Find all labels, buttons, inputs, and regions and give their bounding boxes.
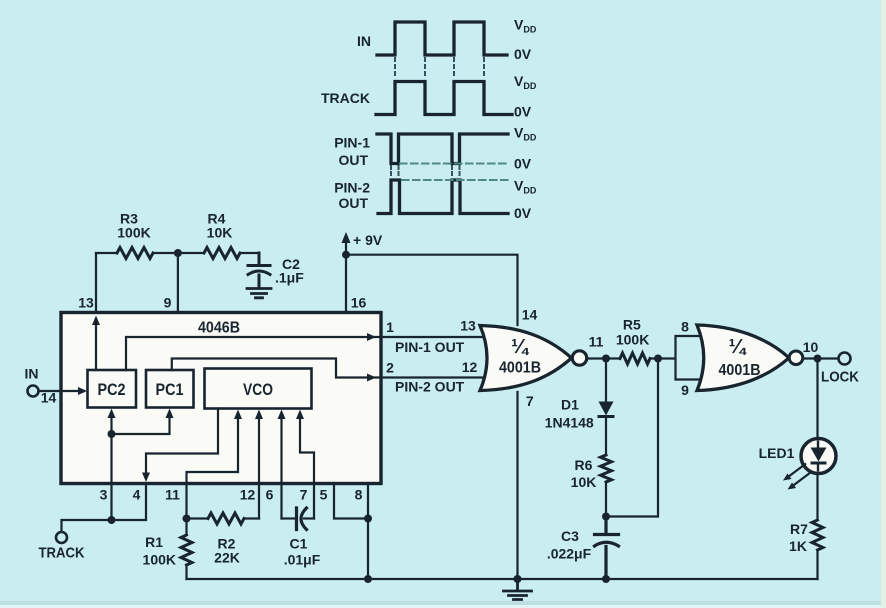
dashed VDD line of PIN-2 OUT: [402, 179, 510, 181]
svg-text:100K: 100K: [616, 332, 649, 348]
svg-text:13: 13: [78, 295, 94, 311]
node pin8 rail: [364, 575, 372, 583]
wire pin12 to VCO: [258, 417, 260, 519]
svg-text:PIN-2: PIN-2: [334, 180, 370, 196]
node TRACK: [108, 516, 116, 524]
arrow pin1 right: [367, 333, 376, 341]
svg-text:13: 13: [460, 318, 476, 334]
svg-text:PC2: PC2: [98, 381, 126, 399]
dashed edge alignment lines IN to TRACK: [395, 58, 484, 79]
U2 output bubble: [789, 351, 803, 365]
svg-text:22K: 22K: [214, 550, 240, 566]
node R3/R4/pin9: [174, 249, 182, 257]
resistor R2: [208, 513, 244, 524]
svg-text:+ 9V: + 9V: [353, 232, 383, 248]
svg-text:R7: R7: [790, 521, 808, 537]
svg-text:D1: D1: [561, 397, 579, 413]
svg-text:R1: R1: [145, 534, 163, 550]
wire R1 bottom: [185, 565, 187, 579]
arrow up into VCO a: [234, 410, 242, 420]
terminal LOCK: [839, 353, 851, 365]
svg-text:14: 14: [522, 307, 538, 323]
dashed 0V line of PIN-1 OUT: [400, 162, 510, 164]
svg-text:11: 11: [165, 487, 180, 503]
wire pin13 internal: [95, 322, 97, 370]
node R6 C3: [602, 513, 610, 521]
svg-text:12: 12: [462, 359, 478, 375]
PC2 box: [88, 370, 137, 408]
ground rail bottom: [187, 578, 818, 580]
svg-text:8: 8: [681, 319, 689, 335]
wire R5 to U2 inputs bracket: [650, 336, 705, 380]
resistor R7: [812, 520, 823, 550]
svg-text:5: 5: [320, 487, 328, 503]
resistor R1: [181, 535, 192, 565]
node R5 right: [654, 355, 662, 363]
arrowheads: [78, 232, 376, 482]
waveform PIN-2 OUT trace: [378, 180, 508, 214]
svg-text:7: 7: [526, 393, 534, 409]
svg-text:PC1: PC1: [156, 381, 184, 399]
arrow down to pin4: [142, 473, 150, 483]
arrow up into PC2 bottom: [108, 409, 116, 419]
svg-text:R5: R5: [623, 317, 641, 333]
wire R2 left: [187, 517, 209, 519]
arrow pin13 up: [92, 316, 100, 326]
svg-text:4: 4: [133, 487, 141, 503]
terminal TRACK: [56, 532, 67, 543]
wire R3-R4 top filter: [96, 252, 259, 254]
arrow up into PC1 bottom: [166, 409, 174, 419]
wire PC2 PC1 bottom junction: [112, 417, 170, 520]
svg-text:100K: 100K: [117, 225, 150, 241]
svg-text:IN: IN: [25, 366, 39, 382]
svg-text:¼: ¼: [729, 336, 748, 358]
arrow up into VCO c: [278, 410, 286, 420]
svg-text:PIN-2 OUT: PIN-2 OUT: [395, 379, 465, 395]
op-amp style NOR gate U1 1/4 4001B: [480, 326, 572, 391]
svg-text:14: 14: [41, 390, 57, 406]
PC1 box: [146, 370, 194, 408]
resistor R4: [204, 248, 240, 259]
svg-text:12: 12: [240, 487, 256, 503]
svg-text:0V: 0V: [514, 104, 532, 120]
arrow into PC2 from IN: [78, 387, 87, 395]
wire pin8 down: [367, 484, 369, 580]
node U2 out: [814, 355, 822, 363]
svg-text:LOCK: LOCK: [821, 369, 859, 386]
node +9V: [342, 251, 350, 259]
wire C3 node feedback to R5 node: [606, 359, 658, 517]
svg-text:10K: 10K: [571, 474, 597, 490]
svg-text:7: 7: [300, 487, 308, 503]
svg-text:.1μF: .1μF: [275, 270, 304, 286]
svg-text:OUT: OUT: [338, 195, 368, 211]
diode D1: [598, 402, 615, 417]
svg-text:9: 9: [164, 295, 172, 311]
capacitor C3: [595, 517, 619, 580]
svg-text:10: 10: [803, 339, 819, 355]
resistor R6: [601, 455, 612, 482]
svg-text:16: 16: [351, 295, 367, 311]
waveform IN trace: [377, 22, 507, 55]
node R1 R2 pin11: [183, 515, 191, 523]
wire R2 right to pin12: [244, 517, 259, 519]
+9V rail to gate U1 pin14: [346, 255, 518, 325]
U1 output bubble: [572, 351, 586, 365]
wire pin1 PC2 to gate input: [126, 337, 492, 370]
svg-text:1K: 1K: [789, 538, 807, 554]
terminal IN: [28, 386, 39, 397]
wire LOCK node down to LED1: [816, 359, 818, 439]
svg-text:IN: IN: [357, 33, 371, 49]
svg-text:OUT: OUT: [338, 152, 368, 168]
node C3 rail: [602, 575, 610, 583]
ground below C2: [247, 289, 271, 298]
svg-text:11: 11: [589, 334, 604, 350]
svg-text:8: 8: [355, 487, 363, 503]
capacitor C1: [297, 508, 307, 530]
wire pin7 to VCO: [300, 417, 314, 519]
LED1: [783, 439, 836, 490]
svg-text:9: 9: [681, 382, 689, 398]
node PC2 bottom: [108, 430, 116, 438]
VCO box: [205, 369, 312, 409]
wire R6 bottom to C3 node: [605, 482, 607, 517]
wire pin13 to filter: [95, 253, 97, 313]
arrow up into VCO d: [296, 410, 304, 420]
wire IN terminal to PC2: [39, 390, 84, 392]
svg-text:C3: C3: [561, 528, 579, 544]
svg-text:TRACK: TRACK: [321, 90, 370, 106]
wire R7 bottom to rail: [816, 550, 818, 579]
wire C1 left: [282, 517, 295, 519]
wire pin11 R1 top: [185, 484, 187, 536]
svg-text:100K: 100K: [143, 552, 176, 568]
NOR gate U2 1/4 4001B: [697, 325, 789, 391]
svg-text:3: 3: [100, 487, 108, 503]
wire U2 output to LOCK: [803, 357, 839, 359]
wire C1 right to pin7: [304, 517, 314, 519]
svg-text:2: 2: [386, 360, 394, 376]
svg-text:4001B: 4001B: [719, 362, 761, 379]
svg-text:1N4148: 1N4148: [545, 415, 594, 431]
wire U1 pin7 to ground rail: [516, 392, 518, 579]
svg-text:.01μF: .01μF: [284, 552, 321, 568]
arrow pin2 right: [367, 374, 376, 382]
svg-text:0V: 0V: [514, 46, 532, 62]
svg-text:R6: R6: [575, 457, 593, 473]
wire VCO out to pin4: [146, 409, 218, 475]
wire pin5 jog: [334, 484, 368, 519]
svg-text:10K: 10K: [207, 225, 233, 241]
node ground rail U1 pin7: [514, 575, 522, 583]
svg-text:PIN-1: PIN-1: [334, 135, 370, 151]
wire D1 to R6: [605, 418, 607, 456]
wire pin11 to VCO: [187, 417, 239, 484]
svg-text:.022μF: .022μF: [547, 546, 592, 562]
svg-text:LED1: LED1: [759, 445, 795, 461]
wire pin9 to filter: [177, 253, 179, 313]
waveform TRACK trace: [376, 82, 512, 115]
resistor R3: [117, 248, 153, 259]
wire TRACK node: [62, 484, 147, 532]
node U1 out: [602, 355, 610, 363]
node pin5 pin8: [364, 515, 372, 523]
wire LED1 to R7: [816, 474, 818, 521]
svg-text:0V: 0V: [514, 205, 532, 221]
svg-text:0V: 0V: [514, 156, 532, 172]
waveform PIN-1 OUT trace: [377, 134, 508, 164]
capacitor C2: [248, 253, 270, 288]
wire D1 branch down: [605, 359, 607, 402]
ground symbol bottom: [504, 579, 532, 600]
svg-text:4046B: 4046B: [198, 320, 240, 337]
wire pin2 PC1 to gate input: [172, 359, 492, 378]
svg-text:VCO: VCO: [243, 381, 273, 399]
arrow +9V up: [342, 232, 351, 243]
wire U1 output to R5: [587, 357, 620, 359]
resistor R5: [620, 353, 650, 364]
svg-text:¼: ¼: [511, 336, 530, 358]
svg-text:1: 1: [386, 319, 394, 335]
svg-text:C1: C1: [290, 536, 308, 552]
svg-text:PIN-1 OUT: PIN-1 OUT: [395, 339, 465, 355]
dashed edge alignment lines PIN-1 to PIN-2: [391, 166, 460, 178]
arrow up into VCO b: [255, 410, 263, 420]
4046B chip box: [61, 313, 381, 484]
svg-text:TRACK: TRACK: [39, 545, 85, 562]
+9V supply wire: [345, 240, 347, 313]
svg-text:6: 6: [266, 487, 274, 503]
wire pin6 to VCO: [280, 417, 282, 519]
svg-text:4001B: 4001B: [499, 360, 541, 377]
